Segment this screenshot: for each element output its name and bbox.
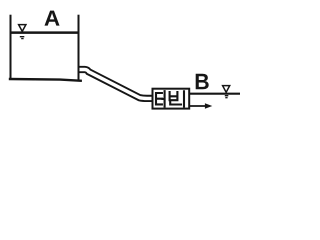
tank left wall <box>10 15 12 80</box>
outflow arrow from turbine <box>189 105 206 107</box>
터 : ㅌ <box>156 93 162 104</box>
터 : ㅓ <box>162 91 164 106</box>
node B label <box>196 74 209 89</box>
tank right wall <box>78 15 80 80</box>
water level symbol at B <box>223 86 230 93</box>
wire penstock pipe from tank A to turbine <box>78 70 154 99</box>
water level symbol at A <box>19 25 26 32</box>
빈 : ㅂ <box>170 92 178 100</box>
node A label <box>44 11 59 26</box>
tank bottom <box>9 79 82 81</box>
빈 : ㅣ <box>183 91 185 106</box>
turbine box <box>153 89 190 109</box>
turbine label 터빈 drawn as strokes <box>156 91 184 106</box>
water surface line in tank <box>12 31 78 34</box>
빈 : ㄴ <box>170 102 181 105</box>
tailwater surface line <box>190 93 240 95</box>
